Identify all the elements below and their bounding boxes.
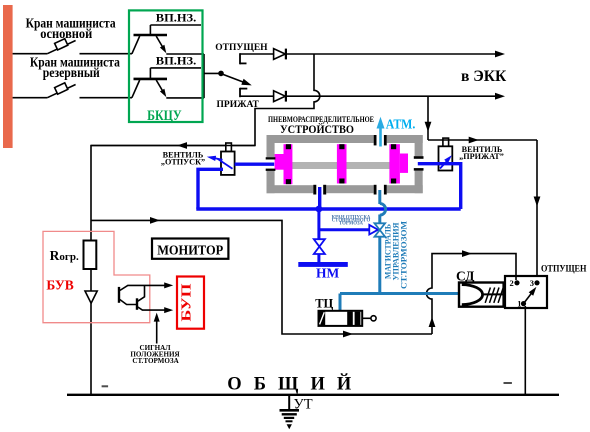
svg-text:ВП.НЗ.: ВП.НЗ.	[156, 10, 196, 24]
svg-text:1: 1	[517, 299, 521, 309]
svg-text:СД: СД	[456, 269, 475, 284]
svg-text:ОТПУЩЕН: ОТПУЩЕН	[541, 265, 587, 275]
svg-text:ОТПУЩЕН: ОТПУЩЕН	[215, 43, 268, 53]
svg-text:основной: основной	[40, 26, 92, 41]
svg-text:резервный: резервный	[43, 65, 100, 80]
svg-text:„ОТПУСК”: „ОТПУСК”	[161, 158, 205, 167]
svg-text:УСТРОЙСТВО: УСТРОЙСТВО	[280, 124, 354, 136]
svg-text:БУП: БУП	[180, 283, 195, 321]
svg-text:Rогр.: Rогр.	[50, 248, 79, 263]
svg-text:ПРИЖАТ: ПРИЖАТ	[217, 100, 260, 110]
svg-text:3: 3	[530, 278, 534, 288]
svg-text:НМ: НМ	[316, 266, 340, 281]
svg-text:УТ: УТ	[294, 396, 313, 412]
svg-text:ТЦ: ТЦ	[315, 297, 333, 311]
svg-text:БКЦУ: БКЦУ	[147, 108, 182, 124]
svg-text:„ПРИЖАТ”: „ПРИЖАТ”	[459, 152, 504, 161]
svg-text:СТ.ТОРМОЗОМ: СТ.ТОРМОЗОМ	[400, 221, 409, 289]
svg-text:СТ.ТОРМОЗА: СТ.ТОРМОЗА	[132, 357, 179, 365]
svg-text:2: 2	[510, 278, 514, 288]
svg-text:БУВ: БУВ	[46, 277, 73, 292]
svg-text:ПНЕВМОРАСПРЕДЕЛИТЕЛЬНОЕ: ПНЕВМОРАСПРЕДЕЛИТЕЛЬНОЕ	[268, 114, 374, 124]
svg-text:в ЭКК: в ЭКК	[461, 68, 507, 85]
svg-text:МОНИТОР: МОНИТОР	[157, 243, 223, 258]
svg-text:ТОРМОЗА: ТОРМОЗА	[339, 222, 363, 227]
svg-text:АТМ.: АТМ.	[386, 116, 416, 131]
svg-text:ВП.НЗ.: ВП.НЗ.	[156, 53, 196, 67]
